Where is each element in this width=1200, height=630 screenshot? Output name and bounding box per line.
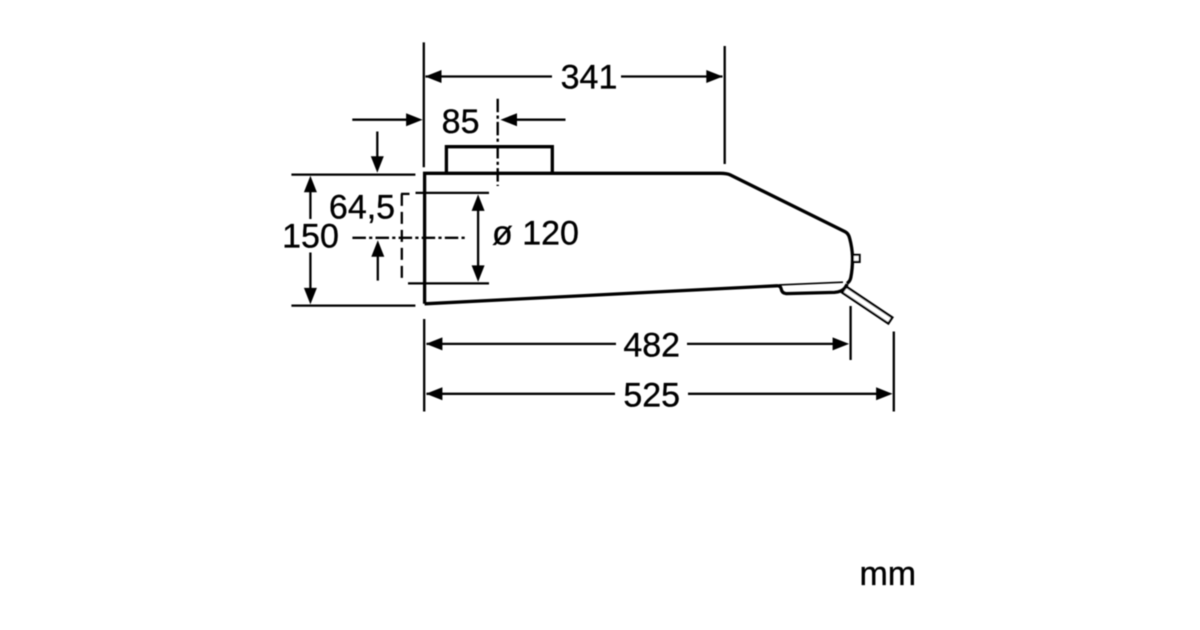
nub on right edge — [853, 255, 860, 262]
arrowhead 341 left — [425, 70, 442, 83]
ext line 482 right — [849, 306, 851, 360]
dimension 341 line — [426, 75, 553, 77]
ext tick dia120 top — [416, 192, 490, 194]
ext tick dia120 bottom — [408, 282, 489, 284]
dashed reference line — [401, 194, 403, 280]
ext line 150 bottom — [291, 304, 415, 306]
svg-text:482: 482 — [623, 327, 680, 365]
extension line 341 left — [423, 42, 425, 167]
dim 482 line — [427, 343, 617, 345]
centre dash-dot horizontal — [352, 237, 468, 239]
dim 150 vertical with arrows — [309, 191, 311, 220]
ext line 150 top — [291, 173, 415, 175]
dim 525 line — [427, 393, 616, 395]
svg-text:mm: mm — [859, 555, 916, 593]
ext line 525 right — [893, 332, 895, 412]
duct on top — [446, 147, 552, 175]
ext line 525 left — [423, 319, 425, 412]
dimension 85 right arrow — [516, 119, 566, 121]
dimension 85 left arrow — [352, 119, 407, 121]
door strip thin top line — [779, 282, 843, 285]
dim 64,5 top arrow — [376, 132, 378, 158]
arrowhead 341 right — [706, 70, 723, 83]
svg-text:150: 150 — [282, 218, 339, 256]
centre dash-dot vertical — [497, 99, 499, 186]
hood body outline — [425, 173, 853, 303]
svg-text:341: 341 — [561, 58, 618, 96]
dia120 double arrow — [477, 209, 479, 267]
svg-text:ø 120: ø 120 — [492, 215, 579, 253]
extension line 341 right — [724, 46, 726, 164]
svg-text:85: 85 — [442, 103, 480, 141]
hood bottom edge — [425, 284, 848, 304]
svg-text:525: 525 — [623, 377, 680, 415]
dim 64,5 bottom arrow — [377, 256, 379, 281]
damper flap — [842, 287, 892, 324]
